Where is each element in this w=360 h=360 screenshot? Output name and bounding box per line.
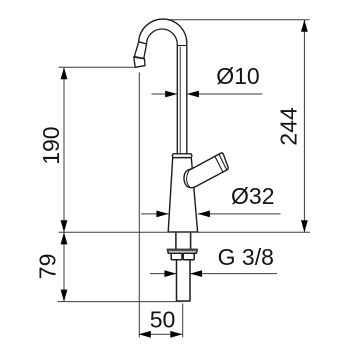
spout joint line 1 (arc to tip) — [139, 42, 147, 44]
svg-text:Ø32: Ø32 — [231, 183, 274, 209]
spout highlight line — [179, 47, 181, 154]
hex nut right facet — [183, 253, 194, 259]
arrow 244 up — [301, 20, 308, 32]
arrow 79 down — [61, 290, 68, 302]
svg-text:Ø10: Ø10 — [216, 63, 259, 89]
arrow d32 right — [198, 211, 210, 218]
neck below deck — [176, 232, 191, 249]
ext line top (244) — [170, 19, 310, 21]
handle joint inner curve — [187, 168, 191, 187]
arrow G38 right — [190, 270, 202, 277]
spout joint line right leg — [177, 45, 187, 47]
arrow 190 up — [61, 67, 68, 79]
body cone — [168, 158, 197, 232]
dim line 244 — [303, 20, 305, 232]
handle cap band lines — [215, 154, 227, 172]
dim line 190 — [63, 67, 65, 232]
svg-text:244: 244 — [276, 107, 302, 146]
handle lever — [184, 153, 228, 188]
ext line bottom (79) — [58, 301, 183, 303]
arrow 50 left — [139, 331, 151, 338]
ext line 50 left (outlet centerline) — [138, 73, 140, 338]
dim line diameter 10 — [152, 93, 263, 95]
dim line diameter 32 — [141, 213, 281, 215]
threaded shank — [177, 260, 191, 301]
arrow d10 left — [165, 91, 177, 98]
dim line G 3/8 — [150, 273, 277, 275]
collar at body top — [172, 154, 191, 158]
arrow 50 right — [170, 331, 182, 338]
arrow G38 left — [164, 270, 176, 277]
aerator tip — [134, 57, 145, 67]
dim line 50 — [139, 333, 183, 335]
svg-text:50: 50 — [150, 307, 176, 333]
flange top band — [167, 249, 197, 251]
arrow d32 left — [156, 211, 168, 218]
spout inner contour — [144, 29, 178, 154]
arrow 79 up — [61, 232, 68, 244]
ext line 190 top — [59, 66, 136, 68]
arrow 244 down — [301, 220, 308, 232]
hex nut left facet — [171, 253, 182, 259]
ext line 50 right (shank centerline) — [182, 304, 184, 338]
spout joint line 2 (tip to aerator) — [134, 57, 144, 59]
svg-text:190: 190 — [38, 126, 64, 164]
spout outer contour (gooseneck arc + right leg) — [134, 19, 187, 154]
svg-text:G 3/8: G 3/8 — [218, 244, 274, 270]
arrow 190 down — [61, 220, 68, 232]
arrow d10 right — [187, 91, 199, 98]
baseline deck — [59, 231, 311, 233]
dim line 79 — [63, 232, 65, 301]
svg-text:79: 79 — [35, 254, 61, 280]
flange washer — [167, 249, 197, 253]
